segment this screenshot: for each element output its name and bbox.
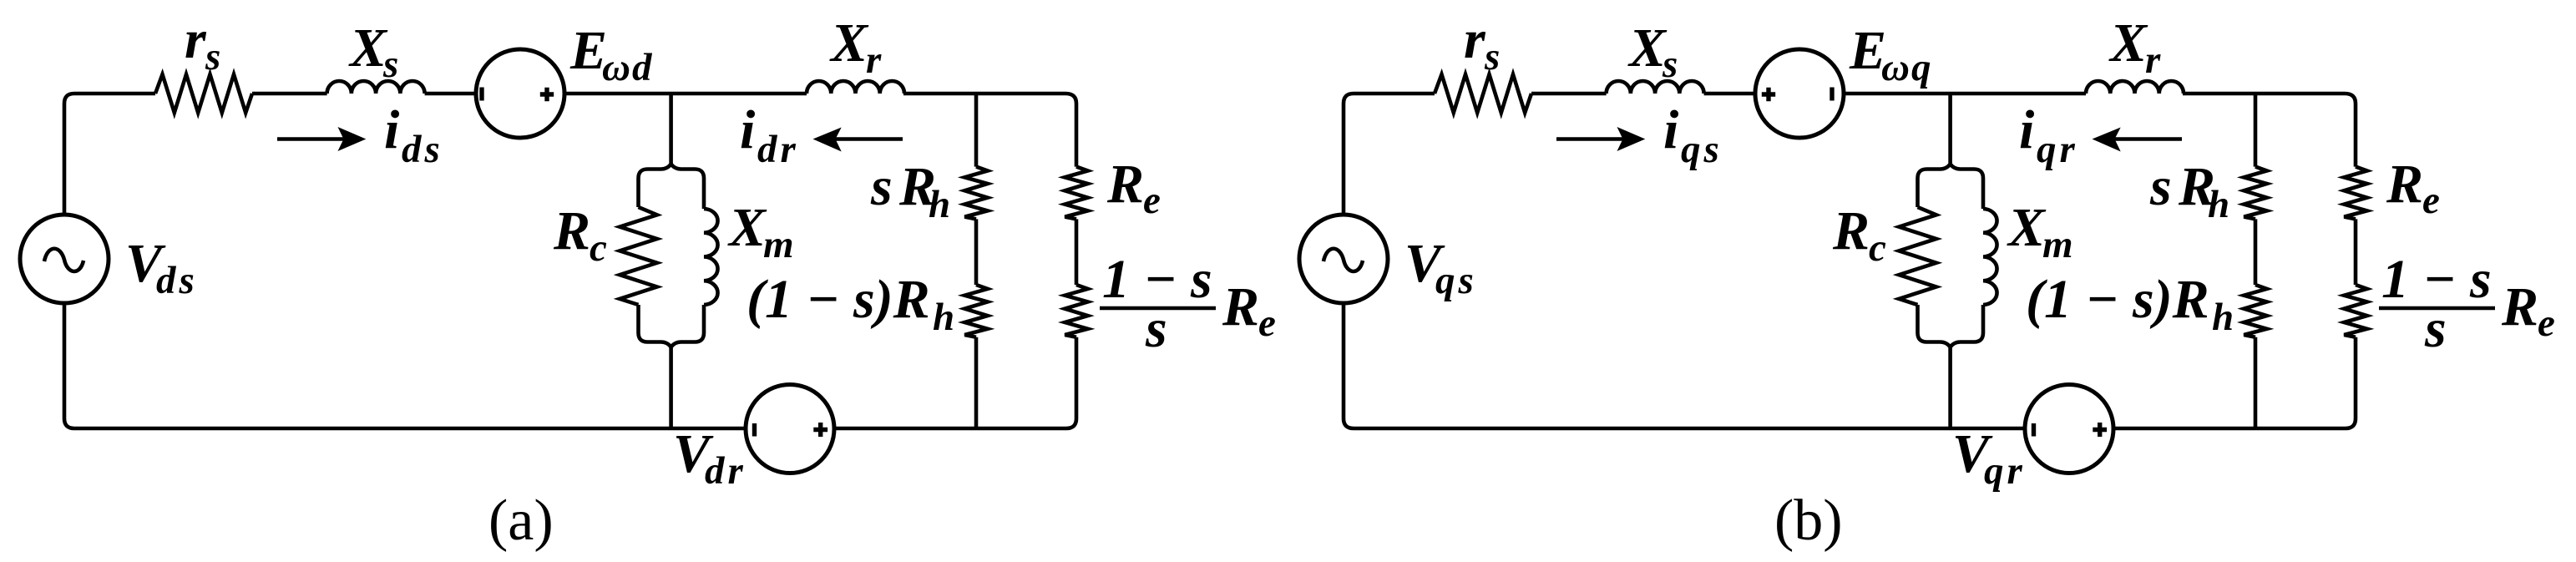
polarity plus (right) xyxy=(540,88,554,101)
wire left edge upper xyxy=(63,104,67,215)
resistor (1-s)/s R_e xyxy=(1065,285,1087,337)
wire hysteresis branch upper lead xyxy=(974,94,979,167)
polarity minus bar (left) xyxy=(752,423,757,437)
svg-text:ds: ds xyxy=(156,259,198,302)
svg-text:(b): (b) xyxy=(1774,489,1843,553)
AC voltage source V_qs (stator supply) xyxy=(1299,215,1388,303)
inductor X_r (q-axis rotor leakage reactance) xyxy=(2086,81,2184,94)
svg-text:dr: dr xyxy=(757,128,799,171)
svg-text:dr: dr xyxy=(705,449,746,493)
wire bottom rail right of V source xyxy=(2114,427,2346,431)
resistor R_c (core loss) xyxy=(636,179,640,333)
wire bottom rail right of V source xyxy=(835,427,1067,431)
circuit (b): q-axis equivalent circuit xyxy=(1299,9,2555,553)
magnetizing branch outline bottom xyxy=(639,333,705,347)
polarity minus bar (right) xyxy=(1830,88,1834,101)
wire top-left corner and stator lead xyxy=(64,94,155,104)
voltage source E_omegad (speed voltage) xyxy=(476,49,564,138)
svg-text:ds: ds xyxy=(402,128,443,171)
svg-text:i: i xyxy=(384,99,400,160)
svg-text:h: h xyxy=(2208,183,2229,226)
svg-text:s: s xyxy=(205,35,220,78)
magnetizing branch outline bottom xyxy=(1918,333,1984,347)
wire eddy branch lower lead xyxy=(1066,337,1076,428)
svg-text:s: s xyxy=(1145,298,1167,359)
wire between R_e and (1-s)/s R_e xyxy=(1075,219,1079,285)
node: magnetizing branch tap (top) xyxy=(669,94,673,165)
svg-text:X: X xyxy=(348,18,388,78)
polarity plus (left) xyxy=(1762,88,1775,101)
svg-text:m: m xyxy=(763,223,794,266)
inductor X_m (magnetizing reactance) xyxy=(702,179,706,333)
wire bottom rail left of V source xyxy=(64,418,746,428)
svg-text:R: R xyxy=(2501,276,2538,337)
current arrow i_qs xyxy=(1556,137,1623,141)
inductor X_s (q-axis stator leakage reactance) xyxy=(1607,81,1704,94)
wire eddy branch upper lead xyxy=(1075,104,1079,167)
resistor r_s (d-axis stator resistance) xyxy=(155,74,252,113)
wire between R_e and (1-s)/s R_e xyxy=(2354,219,2358,285)
wire hysteresis branch lower lead xyxy=(2254,337,2258,428)
svg-text:i: i xyxy=(1663,99,1679,160)
resistor sR_h xyxy=(964,167,987,220)
sine symbol xyxy=(1323,249,1363,271)
svg-text:(1 − s)R: (1 − s)R xyxy=(2026,269,2209,330)
svg-text:e: e xyxy=(2422,179,2440,222)
svg-text:R: R xyxy=(2386,154,2423,215)
wire top-right rounded corner xyxy=(1065,94,1076,104)
resistor (1-s)/s R_e xyxy=(2344,285,2366,337)
svg-text:X: X xyxy=(1627,18,1668,78)
svg-text:i: i xyxy=(740,99,756,160)
inductor X_s (d-axis stator leakage reactance) xyxy=(327,81,425,94)
svg-text:e: e xyxy=(2538,301,2555,345)
wire bottom rail left of V source xyxy=(1344,418,2026,428)
svg-text:c: c xyxy=(590,226,607,270)
wire X_r to iron-loss branch xyxy=(903,92,1065,96)
svg-text:e: e xyxy=(1258,301,1276,345)
svg-text:R: R xyxy=(553,200,590,261)
polarity minus bar (left) xyxy=(479,88,483,101)
svg-text:s: s xyxy=(2424,298,2447,359)
voltage source V_dr (rotor) xyxy=(746,385,834,473)
polarity minus bar (left) xyxy=(2032,423,2036,437)
svg-text:m: m xyxy=(2042,223,2073,266)
svg-text:s: s xyxy=(870,156,893,217)
svg-text:s: s xyxy=(382,43,398,86)
wire left edge lower xyxy=(63,304,67,419)
resistor R_c (core loss) xyxy=(1916,179,1920,333)
wire top-left corner and stator lead xyxy=(1344,94,1435,104)
voltage source V_qr (rotor) xyxy=(2025,385,2113,473)
wire eddy branch lower lead xyxy=(2346,337,2356,428)
wire magnetizing branch to bottom rail xyxy=(669,347,673,429)
svg-text:ω: ω xyxy=(1881,46,1910,89)
svg-text:r: r xyxy=(866,38,882,82)
svg-text:s: s xyxy=(2149,156,2172,217)
svg-text:r: r xyxy=(1464,9,1486,70)
svg-text:c: c xyxy=(1869,226,1886,270)
svg-text:X: X xyxy=(727,197,767,258)
wire X_s to speed-voltage source xyxy=(425,92,477,96)
svg-text:i: i xyxy=(2019,99,2035,160)
wire magnetizing branch to bottom rail xyxy=(1948,347,1952,429)
resistor sR_h xyxy=(2244,167,2266,220)
resistor r_s (q-axis stator resistance) xyxy=(1435,74,1531,113)
svg-text:ω: ω xyxy=(602,46,630,89)
wire top-right rounded corner xyxy=(2345,94,2356,104)
svg-text:R: R xyxy=(1832,200,1870,261)
inductor X_r (d-axis rotor leakage reactance) xyxy=(807,81,904,94)
svg-text:h: h xyxy=(933,296,954,339)
svg-text:X: X xyxy=(829,13,869,73)
svg-text:h: h xyxy=(2212,296,2234,339)
svg-text:R: R xyxy=(1222,276,1259,337)
svg-text:(1 − s)R: (1 − s)R xyxy=(746,269,930,330)
svg-text:qr: qr xyxy=(2037,128,2078,171)
polarity plus (right) xyxy=(813,423,827,437)
svg-text:q: q xyxy=(1911,46,1931,89)
svg-text:R: R xyxy=(1106,154,1144,215)
svg-text:e: e xyxy=(1143,179,1161,222)
svg-text:s: s xyxy=(1484,35,1500,78)
inductor X_m (magnetizing reactance) xyxy=(1981,179,1986,333)
wire between sR_h and (1-s)R_h xyxy=(2254,219,2258,285)
wire r_s to X_s xyxy=(252,92,327,96)
current arrow i_ds xyxy=(277,137,344,141)
wire between sR_h and (1-s)R_h xyxy=(974,219,979,285)
wire hysteresis branch upper lead xyxy=(2254,94,2258,167)
parallel branch R_c / X_m (magnetizing branch outline top) xyxy=(639,165,705,179)
resistor (1-s)R_h xyxy=(2244,285,2266,337)
wire E source to X_r with magnetizing node xyxy=(1844,92,2087,96)
svg-text:qs: qs xyxy=(1681,128,1723,171)
svg-text:qs: qs xyxy=(1435,259,1477,302)
current arrow i_dr xyxy=(835,137,903,141)
wire X_s to speed-voltage source xyxy=(1704,92,1756,96)
resistor R_e xyxy=(2344,167,2366,220)
svg-text:X: X xyxy=(2108,13,2148,73)
sine symbol xyxy=(44,249,84,271)
svg-text:r: r xyxy=(2145,38,2161,82)
wire r_s to X_s xyxy=(1531,92,1607,96)
wire X_r to iron-loss branch xyxy=(2183,92,2345,96)
wire hysteresis branch lower lead xyxy=(974,337,979,428)
voltage source E_omegaq (speed voltage) xyxy=(1755,49,1844,138)
parallel branch R_c / X_m (magnetizing branch outline top) xyxy=(1918,165,1984,179)
svg-text:X: X xyxy=(2007,197,2047,258)
AC voltage source V_ds (stator supply) xyxy=(20,215,109,303)
node: magnetizing branch tap (top) xyxy=(1948,94,1952,165)
current arrow i_qr xyxy=(2114,137,2182,141)
svg-text:(a): (a) xyxy=(488,489,554,553)
polarity plus (right) xyxy=(2093,423,2107,437)
wire E source to X_r with magnetizing node xyxy=(564,92,807,96)
wire eddy branch upper lead xyxy=(2354,104,2358,167)
wire left edge lower xyxy=(1342,304,1346,419)
svg-text:s: s xyxy=(1662,43,1678,86)
svg-text:h: h xyxy=(929,183,950,226)
svg-text:d: d xyxy=(632,46,653,89)
wire left edge upper xyxy=(1342,104,1346,215)
resistor R_e xyxy=(1065,167,1087,220)
svg-text:qr: qr xyxy=(1984,449,2026,493)
resistor (1-s)R_h xyxy=(964,285,987,337)
svg-text:r: r xyxy=(185,9,207,70)
circuit (a): d-axis equivalent circuit xyxy=(20,9,1276,553)
